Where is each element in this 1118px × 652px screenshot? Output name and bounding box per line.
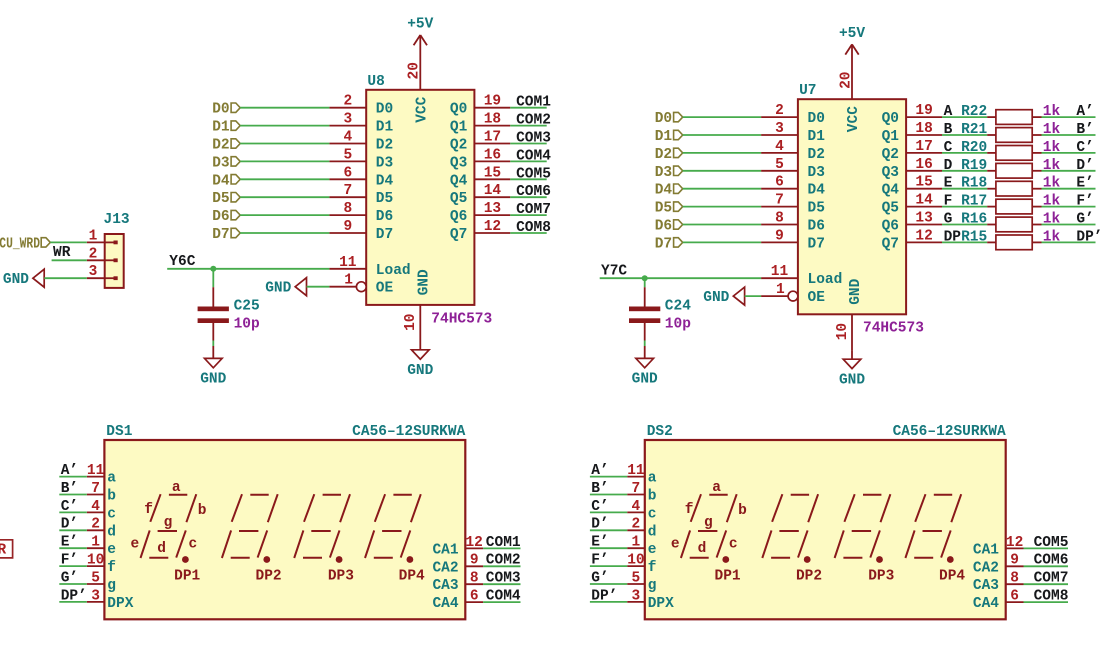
global label D0 <box>212 102 240 118</box>
wire D4 <box>683 188 761 190</box>
svg-text:g: g <box>107 578 116 594</box>
DS2 pin name b <box>648 489 657 505</box>
U7 pin 1 OE (inverted) <box>761 291 798 301</box>
svg-text:GND: GND <box>417 269 433 295</box>
svg-text:5: 5 <box>91 570 100 586</box>
DS1 pin 12 CA1 <box>465 547 483 549</box>
U8 pin number 2 <box>343 94 352 110</box>
power symbol GND (left arrow) at U8 OE <box>265 278 306 297</box>
DS2 pin 10 segment f <box>627 565 645 567</box>
U8 pin 2 D0 <box>329 107 366 109</box>
wire COM2 <box>483 565 520 567</box>
svg-text:b: b <box>738 503 747 519</box>
R17 reference designator <box>961 194 987 210</box>
DS1 pin number 10 <box>87 553 104 569</box>
U7 pin name GND <box>848 278 864 304</box>
U7 pin number 18 <box>915 121 932 137</box>
wire A’ <box>59 476 87 478</box>
DS1 segment letter annotations a b c d e f g <box>131 480 207 557</box>
wire D4 <box>240 178 329 180</box>
net label COM1 <box>486 535 521 551</box>
J13 pin 2 <box>87 259 105 261</box>
svg-text:d: d <box>648 524 657 540</box>
U8 pin number 17 <box>484 130 501 146</box>
U8 pin name Q7 <box>450 227 467 243</box>
wire D5 <box>683 206 761 208</box>
DS2 pin 1 segment e <box>627 547 645 549</box>
net label F <box>944 194 953 210</box>
U7 pin name Q1 <box>882 129 900 145</box>
svg-text:11: 11 <box>627 463 645 479</box>
wire D5 <box>240 196 329 198</box>
wire F’ <box>590 565 627 567</box>
svg-text:10: 10 <box>627 553 644 569</box>
svg-text:GND: GND <box>703 290 729 306</box>
DS2 label DP2 <box>796 569 822 585</box>
svg-text:Q2: Q2 <box>882 147 899 163</box>
DS1 pin 2 segment d <box>87 529 105 531</box>
DS2 7-segment digit 1 graphic <box>681 494 737 563</box>
svg-text:7: 7 <box>91 481 100 497</box>
svg-text:COM2: COM2 <box>516 113 551 129</box>
DS2 pin 9 CA2 <box>1006 565 1024 567</box>
R21 reference designator <box>961 122 987 138</box>
DS2 7-segment digit 4 graphic <box>905 494 961 563</box>
svg-text:18: 18 <box>484 112 501 128</box>
svg-text:GND: GND <box>848 278 864 304</box>
U7 pin name D1 <box>808 129 826 145</box>
svg-text:D0: D0 <box>212 102 229 118</box>
svg-text:10p: 10p <box>234 317 260 333</box>
svg-text:D6: D6 <box>376 209 393 225</box>
net label G’ <box>591 570 608 586</box>
svg-text:D6: D6 <box>655 219 672 235</box>
U7 pin number 15 <box>915 175 932 191</box>
DS1 reference designator <box>106 424 132 440</box>
U8 pin name Q3 <box>450 155 467 171</box>
U7 pin name Q6 <box>882 219 899 235</box>
wire E from U7 to R18 <box>942 188 987 190</box>
U7 pin name D6 <box>808 219 825 235</box>
svg-text:3: 3 <box>89 264 98 280</box>
svg-text:D7: D7 <box>376 227 393 243</box>
svg-text:COM7: COM7 <box>516 202 551 218</box>
svg-text:CA3: CA3 <box>973 578 999 594</box>
svg-text:GND: GND <box>839 372 865 388</box>
resistor R18 <box>987 181 1041 196</box>
svg-text:3: 3 <box>91 588 100 604</box>
wire G’ <box>59 583 87 585</box>
DS2 pin name CA4 <box>973 596 999 612</box>
wire G’ <box>590 583 627 585</box>
svg-text:GND: GND <box>407 363 433 379</box>
net label COM5 <box>516 166 551 182</box>
svg-text:8: 8 <box>470 571 479 587</box>
svg-text:Q6: Q6 <box>882 219 899 235</box>
U7 pin 15 Q4 <box>906 188 942 190</box>
svg-text:COM4: COM4 <box>516 148 551 164</box>
net label DP' <box>1076 229 1102 245</box>
U8 pin number 20 <box>407 62 423 79</box>
svg-text:10: 10 <box>835 323 851 340</box>
DS2 pin 12 CA1 <box>1006 547 1024 549</box>
svg-text:20: 20 <box>838 71 854 88</box>
DS1 pin name CA4 <box>432 596 458 612</box>
svg-text:DP1: DP1 <box>174 569 200 585</box>
U7 pin name Q7 <box>882 236 899 252</box>
power symbol GND below C24 <box>632 346 658 388</box>
U8 pin 8 D6 <box>329 214 366 216</box>
svg-text:CA2: CA2 <box>973 560 999 576</box>
DS2 pin name CA1 <box>973 542 999 558</box>
svg-text:D5: D5 <box>212 191 229 207</box>
svg-text:6: 6 <box>775 175 784 191</box>
U8 pin 13 Q6 <box>474 214 510 216</box>
net label A <box>944 104 953 120</box>
junction on Y7C net <box>642 275 648 281</box>
U7 pin name Q4 <box>882 183 900 199</box>
svg-text:D4: D4 <box>212 173 230 189</box>
U8 pin number 18 <box>484 112 501 128</box>
DS1 pin 4 segment c <box>87 511 105 513</box>
wire E’ <box>59 547 87 549</box>
connector J13 <box>104 212 130 288</box>
R15 value 1k <box>1043 229 1061 245</box>
svg-text:c: c <box>107 506 116 522</box>
DS1 pin 11 segment a <box>87 476 105 478</box>
wire COM6 <box>510 196 546 198</box>
net label COM6 <box>516 184 551 200</box>
U8 pin name D2 <box>376 138 393 154</box>
DS1 value CA56-12SURKWA <box>352 424 465 440</box>
svg-text:D3: D3 <box>655 165 672 181</box>
svg-text:4: 4 <box>775 139 784 155</box>
svg-text:a: a <box>648 471 657 487</box>
R22 reference designator <box>961 104 987 120</box>
svg-text:R22: R22 <box>961 104 987 120</box>
svg-text:MCU_WRD: MCU_WRD <box>0 236 40 252</box>
svg-text:A: A <box>944 104 953 120</box>
net label C <box>944 140 953 156</box>
resistor R17 <box>987 199 1041 214</box>
U7 pin name Q0 <box>882 111 899 127</box>
svg-text:D4: D4 <box>808 183 826 199</box>
DS1 pin 8 CA3 <box>465 583 483 585</box>
svg-text:7: 7 <box>775 193 784 209</box>
wire COM7 <box>1024 583 1069 585</box>
global label D4 <box>655 183 683 199</box>
U8 pin 9 D7 <box>329 232 366 234</box>
power symbol +5V above U8 <box>407 17 433 46</box>
net label A’ <box>61 463 78 479</box>
DS2 pin 7 segment b <box>627 494 645 496</box>
wire GND to U7 OE <box>745 295 762 297</box>
svg-text:R19: R19 <box>961 158 987 174</box>
global label D1 <box>212 120 240 136</box>
net label B’ <box>591 481 608 497</box>
svg-text:2: 2 <box>775 103 784 119</box>
svg-text:2: 2 <box>89 246 98 262</box>
svg-text:Q0: Q0 <box>882 111 899 127</box>
svg-text:Q7: Q7 <box>882 236 899 252</box>
svg-text:DS1: DS1 <box>106 424 132 440</box>
svg-text:COM1: COM1 <box>516 95 551 111</box>
global label D3 <box>655 165 683 181</box>
DS2 pin number 5 <box>632 570 641 586</box>
R18 reference designator <box>961 176 987 192</box>
svg-text:CA1: CA1 <box>432 542 458 558</box>
U8 pin 11 Load <box>329 268 366 270</box>
DS2 pin 6 CA4 <box>1006 601 1024 603</box>
svg-text:OE: OE <box>808 290 826 306</box>
svg-text:Q3: Q3 <box>882 165 899 181</box>
DS2 pin name f <box>648 560 657 576</box>
wire C' from R20 <box>1042 152 1096 154</box>
svg-text:a: a <box>107 471 116 487</box>
svg-text:g: g <box>164 515 173 531</box>
svg-text:J13: J13 <box>104 212 130 228</box>
global label D2 <box>655 147 683 163</box>
net label COM5 <box>1034 535 1069 551</box>
svg-text:E: E <box>944 176 953 192</box>
U8 pin 6 D4 <box>329 178 366 180</box>
U8 pin name VCC <box>414 96 430 122</box>
svg-text:f: f <box>685 502 694 518</box>
DS1 pin number 7 <box>91 481 100 497</box>
U7 pin name D0 <box>808 111 825 127</box>
svg-text:20: 20 <box>407 62 423 79</box>
U8 pin 20 VCC <box>419 35 421 90</box>
svg-text:DP3: DP3 <box>868 569 894 585</box>
net label D <box>944 158 953 174</box>
DS2 pin number 11 <box>627 463 645 479</box>
svg-text:d: d <box>698 541 707 557</box>
U7 pin 17 Q2 <box>906 152 942 154</box>
DS2 pin 11 segment a <box>627 476 645 478</box>
svg-text:1: 1 <box>632 535 641 551</box>
net label G' <box>1076 212 1093 228</box>
net label COM8 <box>1034 589 1069 605</box>
svg-text:C: C <box>944 140 953 156</box>
svg-text:CA4: CA4 <box>432 596 458 612</box>
net label COM4 <box>486 589 521 605</box>
U7 pin number 16 <box>915 157 932 173</box>
svg-text:74HC573: 74HC573 <box>431 311 492 327</box>
DS1 pin 3 segment DPX <box>87 601 105 603</box>
svg-text:Y6C: Y6C <box>169 254 195 270</box>
wire D7 <box>240 232 329 234</box>
svg-text:10: 10 <box>87 553 104 569</box>
U8 pin number 5 <box>343 147 352 163</box>
U8 pin number 19 <box>484 94 501 110</box>
svg-text:WR: WR <box>53 245 71 261</box>
C25 value 10p <box>234 317 260 333</box>
DS2 pin number 9 <box>1010 553 1019 569</box>
power symbol GND (left arrow) at J13 pin 3 <box>3 269 44 288</box>
IC U7 74HC573 body <box>798 99 906 314</box>
U8 pin name D6 <box>376 209 393 225</box>
net label WR <box>53 245 71 261</box>
U7 pin name Q2 <box>882 147 899 163</box>
svg-text:5: 5 <box>775 157 784 173</box>
svg-text:D’: D’ <box>1076 158 1093 174</box>
svg-text:DP2: DP2 <box>796 569 822 585</box>
svg-text:E’: E’ <box>1076 176 1093 192</box>
wire D6 <box>240 214 329 216</box>
U7 pin number 6 <box>775 175 784 191</box>
svg-text:6: 6 <box>1010 589 1019 605</box>
wire C from U7 to R20 <box>942 152 987 154</box>
net label B' <box>1076 122 1093 138</box>
global label D7 <box>212 227 240 243</box>
svg-text:CA1: CA1 <box>973 542 999 558</box>
svg-text:D2: D2 <box>655 147 672 163</box>
DS1 pin name a <box>107 471 116 487</box>
svg-text:R20: R20 <box>961 140 987 156</box>
svg-text:10p: 10p <box>665 317 691 333</box>
net label E’ <box>61 535 78 551</box>
U7 pin name D2 <box>808 147 825 163</box>
wire F from U7 to R17 <box>942 206 987 208</box>
svg-text:Q5: Q5 <box>450 191 467 207</box>
U7 pin name D3 <box>808 165 825 181</box>
svg-text:Q4: Q4 <box>450 173 468 189</box>
svg-text:U8: U8 <box>367 74 384 90</box>
wire COM4 <box>483 601 520 603</box>
global label D2 <box>212 138 240 154</box>
DS2 pin name CA3 <box>973 578 999 594</box>
U8 pin 5 D3 <box>329 160 366 162</box>
svg-text:4: 4 <box>632 499 641 515</box>
R18 value 1k <box>1043 176 1061 192</box>
svg-text:D0: D0 <box>808 111 825 127</box>
net label DP <box>944 229 962 245</box>
DS1 label DP1 <box>174 569 200 585</box>
svg-text:D1: D1 <box>808 129 826 145</box>
svg-text:D4: D4 <box>655 183 673 199</box>
svg-text:DPX: DPX <box>107 596 133 612</box>
svg-text:3: 3 <box>632 588 641 604</box>
U8 pin name Q6 <box>450 209 467 225</box>
svg-text:D1: D1 <box>212 120 230 136</box>
svg-text:Q1: Q1 <box>882 129 900 145</box>
svg-text:f: f <box>648 560 657 576</box>
DS2 label DP3 <box>868 569 894 585</box>
U8 pin name D0 <box>376 102 393 118</box>
clipped hierarchical label R at left edge <box>0 540 13 559</box>
svg-text:D7: D7 <box>808 236 825 252</box>
svg-text:CA3: CA3 <box>432 578 458 594</box>
U7 pin number 1 <box>776 282 785 298</box>
DS1 pin 9 CA2 <box>465 565 483 567</box>
U7 pin number 20 <box>838 71 854 88</box>
svg-text:CA56–12SURKWA: CA56–12SURKWA <box>893 424 1006 440</box>
wire G' from R16 <box>1042 224 1096 226</box>
svg-text:DP2: DP2 <box>256 569 282 585</box>
R22 value 1k <box>1043 104 1061 120</box>
svg-text:Q0: Q0 <box>450 102 467 118</box>
DS2 label DP4 <box>939 569 965 585</box>
DS1 7-segment digit 1 graphic <box>141 494 197 563</box>
U8 pin 4 D2 <box>329 143 366 145</box>
net label COM7 <box>1034 571 1069 587</box>
svg-text:11: 11 <box>339 255 357 271</box>
wire D2 <box>240 143 329 145</box>
U7 value 74HC573 <box>863 321 924 337</box>
svg-text:10: 10 <box>403 313 419 330</box>
svg-text:D2: D2 <box>808 147 825 163</box>
svg-text:14: 14 <box>915 193 933 209</box>
U8 pin number 1 <box>344 273 353 289</box>
wire GND to J13 pin 3 <box>44 277 87 279</box>
wire G from U7 to R16 <box>942 224 987 226</box>
svg-text:R17: R17 <box>961 194 987 210</box>
wire WR to J13 pin 2 <box>52 259 87 261</box>
wire D3 <box>240 160 329 162</box>
R19 value 1k <box>1043 158 1061 174</box>
wire COM5 <box>510 178 546 180</box>
svg-text:1: 1 <box>344 273 353 289</box>
wire COM3 <box>510 143 546 145</box>
net label COM4 <box>516 148 551 164</box>
wire A' from R22 <box>1042 116 1096 118</box>
U7 pin 13 Q6 <box>906 224 942 226</box>
net label COM3 <box>486 571 521 587</box>
wire A from U7 to R22 <box>942 116 987 118</box>
U8 pin name D5 <box>376 191 393 207</box>
C25 reference designator <box>234 299 260 315</box>
svg-text:COM6: COM6 <box>516 184 551 200</box>
svg-text:16: 16 <box>484 147 501 163</box>
svg-text:GND: GND <box>200 372 226 388</box>
U7 pin number 12 <box>915 228 932 244</box>
resistor R16 <box>987 217 1041 232</box>
U8 pin number 6 <box>343 165 352 181</box>
svg-text:GND: GND <box>265 281 291 297</box>
svg-text:f: f <box>144 502 153 518</box>
svg-text:DP4: DP4 <box>399 569 425 585</box>
svg-text:4: 4 <box>91 499 100 515</box>
DS1 7-segment digit 3 graphic <box>294 494 350 563</box>
DS2 pin name a <box>648 471 657 487</box>
wire COM7 <box>510 214 546 216</box>
svg-text:D3: D3 <box>808 165 825 181</box>
svg-text:18: 18 <box>915 121 932 137</box>
svg-text:e: e <box>107 542 116 558</box>
wire D0 <box>240 107 329 109</box>
net label COM7 <box>516 202 551 218</box>
DS2 pin number 2 <box>632 517 641 533</box>
U8 pin name Q4 <box>450 173 468 189</box>
svg-text:12: 12 <box>484 219 501 235</box>
DS2 pin name e <box>648 542 657 558</box>
wire COM6 <box>1024 565 1069 567</box>
svg-text:D6: D6 <box>212 209 229 225</box>
DS2 pin number 8 <box>1010 571 1019 587</box>
R20 reference designator <box>961 140 987 156</box>
svg-text:R16: R16 <box>961 212 987 228</box>
svg-text:7: 7 <box>343 183 352 199</box>
U8 pin number 3 <box>343 112 352 128</box>
wire COM1 <box>483 547 520 549</box>
wire E’ <box>590 547 627 549</box>
svg-text:17: 17 <box>915 139 932 155</box>
svg-text:9: 9 <box>1010 553 1019 569</box>
svg-text:C24: C24 <box>665 299 691 315</box>
svg-text:D5: D5 <box>655 201 672 217</box>
U7 pin number 9 <box>775 228 784 244</box>
net label COM2 <box>516 113 551 129</box>
